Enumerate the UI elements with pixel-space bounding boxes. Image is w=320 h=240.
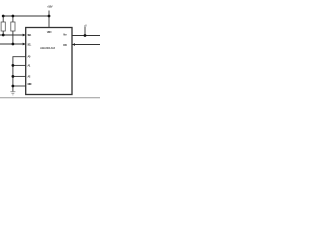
svg-text:+V: +V	[84, 23, 87, 27]
svg-text:ABA301JL8: ABA301JL8	[40, 46, 55, 50]
svg-text:VDD: VDD	[47, 30, 53, 34]
svg-text:+1.8V: +1.8V	[47, 5, 53, 9]
svg-text:A2: A2	[27, 75, 30, 79]
svg-text:SCL: SCL	[27, 42, 31, 46]
svg-text:A1: A1	[27, 64, 30, 68]
svg-text:Vs+: Vs+	[63, 33, 67, 37]
svg-text:A0: A0	[27, 55, 30, 59]
